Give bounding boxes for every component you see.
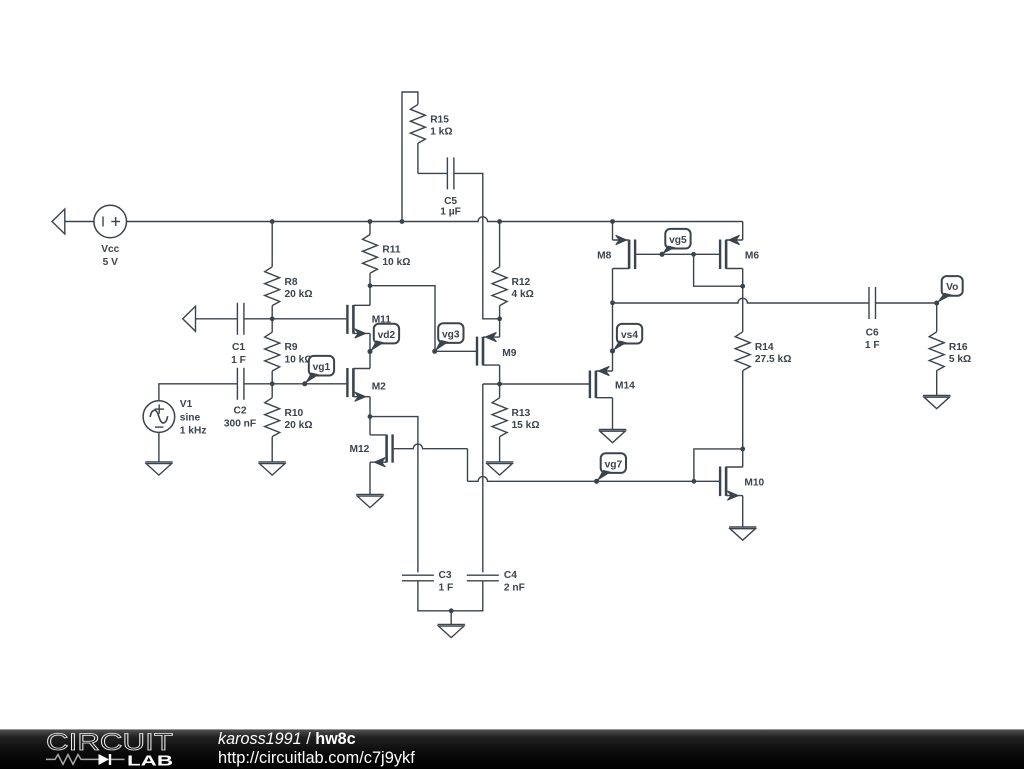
wire M9 bottom (499, 365, 501, 384)
label vs4 (610, 324, 642, 354)
transistor M14 (590, 367, 635, 399)
node rail-R12 (497, 219, 502, 224)
ground R13 (486, 462, 513, 475)
svg-text:vd2: vd2 (378, 330, 396, 341)
svg-text:M14: M14 (615, 381, 635, 392)
svg-text:1 F: 1 F (231, 355, 246, 366)
wire C3 bottom (418, 581, 451, 611)
transistor M11 (347, 305, 391, 338)
svg-text:1 F: 1 F (865, 340, 880, 351)
svg-text:R12: R12 (512, 277, 531, 288)
resistor R8 (265, 222, 313, 319)
resistor R12 (492, 222, 534, 319)
wire M2 source (369, 397, 371, 417)
wire R11-vg3 (370, 286, 477, 352)
ground M14 (599, 430, 626, 443)
capacitor C2 (224, 368, 256, 430)
svg-text:1 kΩ: 1 kΩ (430, 127, 452, 138)
wire V1 top (159, 384, 238, 401)
transistor M2 (347, 368, 386, 401)
node M6 drain (740, 284, 745, 289)
svg-text:M12: M12 (349, 444, 369, 455)
ground M12 (356, 494, 383, 507)
wire M2 drain (369, 352, 371, 369)
wire M10 source (742, 496, 744, 527)
wire vs4 (612, 303, 614, 371)
resistor R10 (265, 384, 313, 462)
wire C4 bottom (451, 581, 483, 611)
wire output row (613, 298, 870, 303)
svg-text:1 µF: 1 µF (440, 207, 461, 218)
svg-text:20 kΩ: 20 kΩ (285, 289, 313, 300)
svg-text:C1: C1 (232, 342, 245, 353)
node rail-R11 (368, 219, 373, 224)
node M9 source (497, 382, 502, 387)
wire M9node-left (483, 383, 500, 385)
node rail-R15 (400, 219, 405, 224)
svg-text:1 F: 1 F (439, 582, 454, 593)
wire V1 bottom (158, 432, 160, 462)
wire R15-C5 (418, 172, 448, 174)
svg-text:R15: R15 (430, 114, 449, 125)
svg-text:LAB: LAB (127, 754, 173, 769)
wire M11 drain (369, 286, 371, 306)
resistor R11 (363, 222, 411, 286)
svg-text:27.5 kΩ: 27.5 kΩ (755, 354, 792, 365)
svg-text:Vcc: Vcc (101, 244, 119, 255)
node C3-C4 (449, 608, 454, 613)
capacitor C4 (467, 570, 525, 593)
svg-text:300 nF: 300 nF (224, 418, 256, 429)
wire M9 top (499, 319, 501, 337)
footer attribution text (217, 729, 219, 731)
node M10 drain (740, 447, 745, 452)
voltage source V1 (143, 399, 206, 437)
wire M8-M6 gates (635, 253, 720, 255)
wire M10 gate loop (694, 449, 743, 481)
svg-text:C4: C4 (504, 570, 517, 581)
svg-text:5 V: 5 V (103, 257, 118, 268)
flag C1 input (183, 306, 196, 331)
node rail-R8 (270, 219, 275, 224)
svg-text:M6: M6 (745, 250, 759, 261)
wire M6 bottom (742, 269, 744, 287)
svg-text:1 kHz: 1 kHz (180, 426, 207, 437)
wire M8 bottom (612, 269, 614, 303)
label vg1 (302, 356, 334, 386)
footer bar (0, 729, 1024, 769)
CircuitLab logo (40, 730, 220, 769)
svg-text:V1: V1 (180, 399, 193, 410)
svg-text:CIRCUIT: CIRCUIT (46, 730, 173, 756)
svg-text:15 kΩ: 15 kΩ (512, 420, 540, 431)
label vg7 (594, 453, 626, 484)
svg-text:M9: M9 (502, 348, 516, 359)
wire to M2 gate (272, 383, 347, 385)
svg-text:5 kΩ: 5 kΩ (949, 354, 971, 365)
wire M10 drain (742, 449, 744, 467)
transistor M6 (720, 236, 759, 269)
label vd2 (368, 324, 400, 354)
transistor M12 (349, 434, 392, 466)
node vg5 (660, 252, 665, 257)
ground R16 (923, 396, 950, 409)
node M8 drain (610, 300, 615, 305)
capacitor C6 (865, 287, 880, 351)
wire C4 line (482, 384, 484, 572)
node vd2 (368, 349, 373, 354)
svg-text:R11: R11 (382, 245, 400, 256)
wire Vcc rail (127, 217, 743, 222)
svg-text:vg5: vg5 (669, 235, 687, 246)
svg-text:M8: M8 (597, 250, 611, 261)
resistor R16 (929, 303, 971, 396)
ground V1 (145, 462, 172, 475)
svg-text:sine: sine (180, 412, 201, 423)
ground R10 (259, 462, 286, 475)
svg-text:vg3: vg3 (442, 329, 460, 340)
svg-text:R16: R16 (949, 342, 968, 353)
resistor R15 (410, 104, 452, 173)
node C2 row (270, 381, 275, 386)
wire M6 drop (742, 222, 744, 241)
resistor R9 (265, 319, 313, 384)
label vg3 (432, 323, 463, 354)
node M2-M12 (368, 414, 373, 419)
wire vg7 row (468, 477, 721, 482)
svg-text:Vo: Vo (946, 282, 958, 293)
capacitor C3 (402, 570, 453, 593)
wire M12 drain (369, 417, 371, 435)
wire M12 source (369, 462, 371, 494)
ground C3C4 (438, 611, 465, 638)
svg-text:R10: R10 (285, 408, 304, 419)
svg-text:vs4: vs4 (621, 330, 638, 341)
svg-text:10 kΩ: 10 kΩ (382, 257, 410, 268)
svg-text:R14: R14 (755, 342, 774, 353)
wire C5-down (454, 173, 500, 318)
ground M10 (729, 527, 756, 540)
wire M12 gate (393, 444, 468, 481)
label Vo (934, 276, 963, 305)
svg-text:C3: C3 (439, 570, 452, 581)
node gate tie (691, 252, 696, 257)
node vs4 (610, 349, 615, 354)
node rail-M8 (610, 219, 615, 224)
wire R15 top (402, 92, 418, 222)
wire C6-Vo (876, 302, 937, 304)
wire M11 source (369, 333, 371, 351)
wire (65, 221, 94, 223)
transistor M8 (597, 236, 635, 269)
svg-text:R9: R9 (285, 342, 298, 353)
svg-text:R8: R8 (285, 277, 298, 288)
wire to M11 gate (272, 318, 347, 320)
capacitor C1 (231, 303, 246, 366)
resistor R14 (735, 286, 791, 449)
svg-text:C2: C2 (233, 406, 246, 417)
wire M2node-C3 (370, 417, 418, 573)
svg-text:R13: R13 (512, 408, 531, 419)
svg-text:M10: M10 (744, 478, 764, 489)
voltage source Vcc (94, 205, 127, 268)
power flag Vcc (52, 209, 65, 234)
svg-text:C6: C6 (866, 327, 879, 338)
svg-text:M2: M2 (372, 381, 386, 392)
svg-text:4 kΩ: 4 kΩ (512, 289, 534, 300)
wire C2-R10 (244, 383, 272, 385)
node R11 bottom (368, 283, 373, 288)
node M9 drain (497, 316, 502, 321)
wire M14 bottom (612, 398, 614, 430)
node vg7 (594, 479, 599, 484)
svg-text:vg7: vg7 (605, 459, 623, 470)
wire gate tie (694, 254, 743, 286)
wire M9node-M14gate (500, 383, 590, 385)
wire C1-R8node (244, 318, 272, 320)
transistor M9 (477, 333, 517, 366)
svg-text:2 nF: 2 nF (504, 582, 525, 593)
wire flag-C1 (196, 318, 238, 320)
node M10 gate (692, 479, 697, 484)
svg-text:vg1: vg1 (313, 362, 331, 373)
transistor M10 (720, 467, 764, 501)
svg-text:C5: C5 (444, 196, 457, 207)
svg-text:20 kΩ: 20 kΩ (285, 420, 313, 431)
node C1 row (270, 316, 275, 321)
label vg5 (660, 229, 691, 257)
capacitor C5 (440, 157, 461, 217)
resistor R13 (492, 384, 539, 462)
wire M8 top (612, 222, 614, 241)
